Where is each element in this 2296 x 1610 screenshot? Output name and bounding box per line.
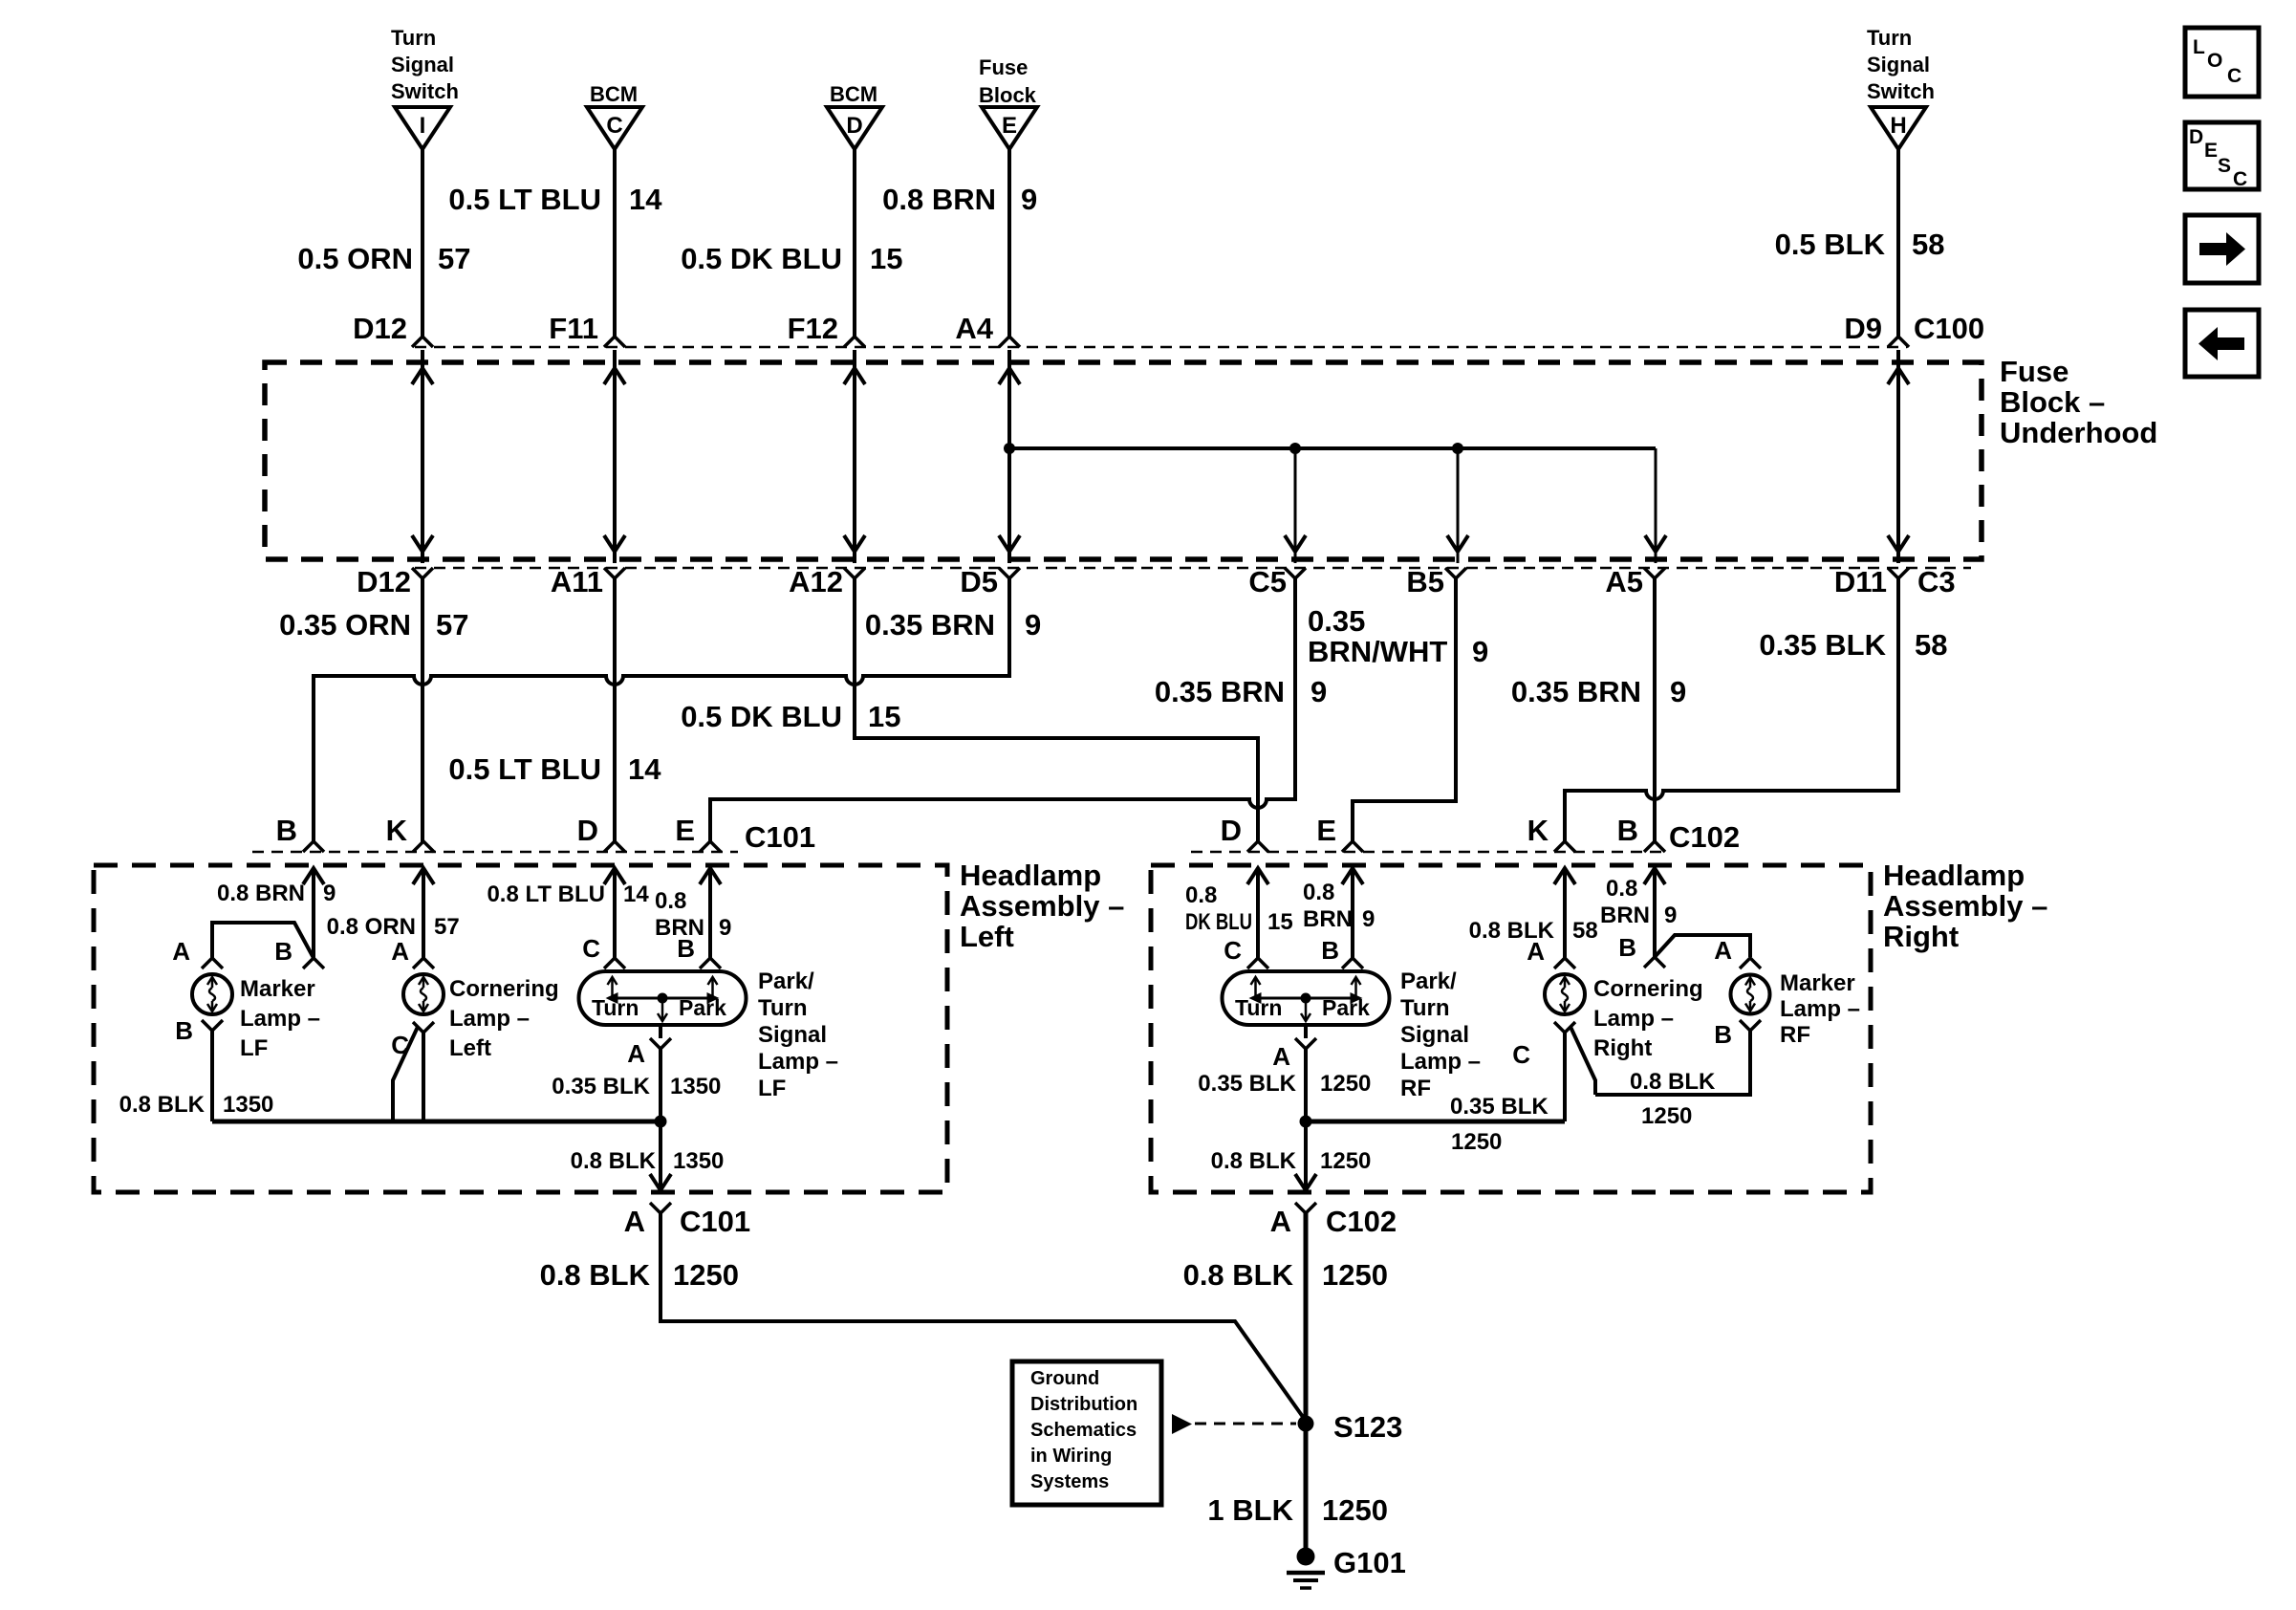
- svg-text:Ground: Ground: [1030, 1368, 1099, 1389]
- svg-text:Lamp –: Lamp –: [758, 1049, 838, 1075]
- svg-text:9: 9: [1664, 903, 1677, 928]
- note arrow: [1172, 1414, 1192, 1434]
- wire E-pin to park/turn RF B (0.8 BRN 9): [1351, 868, 1354, 958]
- svg-text:LF: LF: [758, 1076, 786, 1101]
- wire B-pin to marker RF (0.8 BRN 9): [1653, 868, 1657, 957]
- connector C100 dashed line: [415, 346, 1907, 349]
- connector C3 dashed line: [415, 567, 1971, 570]
- svg-text:B: B: [1714, 1020, 1732, 1049]
- label 0.8 BRN 9: [882, 183, 1037, 216]
- C102 terminal chevrons: [1247, 841, 1665, 852]
- svg-text:B: B: [274, 937, 292, 966]
- label 0.5 BLK 58: [1775, 228, 1945, 261]
- svg-text:C101: C101: [680, 1205, 750, 1238]
- svg-text:1350: 1350: [223, 1092, 273, 1118]
- svg-text:D: D: [2189, 126, 2203, 148]
- svg-text:1250: 1250: [1320, 1071, 1371, 1097]
- svg-text:15: 15: [870, 242, 902, 275]
- terminal chevron C cornering right: [1554, 1022, 1575, 1033]
- svg-text:Underhood: Underhood: [2000, 416, 2157, 449]
- terminal chevron B (BRN wire end): [303, 958, 324, 968]
- C3 terminal chevrons: [412, 568, 1909, 578]
- svg-text:H: H: [1890, 113, 1906, 139]
- label 0.8 BRN 9 (marker LF): [217, 881, 336, 906]
- marker lamp LF bulb: [192, 974, 232, 1014]
- svg-text:1250: 1250: [1320, 1148, 1371, 1174]
- svg-text:0.8 BLK: 0.8 BLK: [1183, 1258, 1294, 1292]
- wire C102-A to S123 to G101: [1304, 1213, 1309, 1550]
- svg-text:D12: D12: [357, 565, 411, 598]
- svg-text:Fuse: Fuse: [979, 55, 1028, 79]
- label 0.35 BRN 9 (D5): [865, 608, 1041, 642]
- svg-text:0.8 BLK: 0.8 BLK: [571, 1148, 657, 1174]
- park/turn signal lamp RF label: [1400, 968, 1481, 1101]
- label 0.35 BLK 1350: [552, 1074, 721, 1099]
- fuse block bottom arrows: [412, 535, 1909, 552]
- svg-text:0.35 BLK: 0.35 BLK: [1759, 628, 1886, 662]
- svg-text:C: C: [606, 113, 622, 139]
- terminal chevron A marker RF: [1740, 958, 1761, 968]
- svg-text:Marker: Marker: [1780, 970, 1855, 996]
- Headlamp Assembly - Left label: [960, 859, 1124, 953]
- svg-text:58: 58: [1572, 918, 1598, 944]
- svg-text:14: 14: [623, 881, 649, 907]
- svg-text:C5: C5: [1248, 565, 1287, 598]
- marker lamp RF label: [1780, 970, 1860, 1048]
- label 0.35 ORN 57: [279, 608, 468, 642]
- LOC box: [2185, 28, 2259, 97]
- label 0.8 ORN 57 (cornering left): [327, 914, 460, 940]
- wire cornering C diagonal to marker bus: [393, 1027, 418, 1121]
- svg-text:S: S: [2218, 155, 2231, 177]
- right ground bus 0.35 BLK 1250: [1306, 1120, 1565, 1124]
- wire park/turn LF A to ground bus: [659, 1049, 662, 1121]
- wire D12 to C101-K (ORN): [421, 578, 424, 843]
- wire park/turn LF A stub: [659, 1025, 662, 1038]
- wire D-pin to park/turn RF C (0.8 DK BLU 15): [1256, 868, 1260, 958]
- svg-text:Switch: Switch: [391, 79, 459, 103]
- wire B5 branch inside fuse block: [1457, 448, 1460, 563]
- svg-text:Assembly –: Assembly –: [1883, 889, 2047, 923]
- svg-text:B: B: [677, 934, 695, 963]
- svg-text:Signal: Signal: [1867, 53, 1930, 76]
- svg-text:A: A: [1527, 937, 1545, 966]
- svg-text:Signal: Signal: [1400, 1022, 1469, 1048]
- svg-text:C101: C101: [745, 820, 815, 854]
- wire E-pin to park/turn B (0.8 BRN 9): [708, 868, 712, 958]
- svg-text:C: C: [1512, 1040, 1530, 1069]
- cornering lamp right bulb: [1545, 974, 1585, 1014]
- svg-text:BCM: BCM: [590, 82, 638, 106]
- svg-text:C: C: [2233, 168, 2247, 190]
- ground G101 symbol: [1287, 1548, 1325, 1589]
- terminal chevron A park/turn RF: [1295, 1038, 1316, 1049]
- svg-text:0.8 LT BLU: 0.8 LT BLU: [487, 881, 605, 907]
- svg-text:0.35: 0.35: [1308, 604, 1365, 638]
- svg-text:LF: LF: [240, 1035, 268, 1061]
- svg-text:C102: C102: [1326, 1205, 1397, 1238]
- svg-text:1250: 1250: [1322, 1258, 1388, 1292]
- svg-text:Park: Park: [1322, 995, 1370, 1020]
- svg-text:E: E: [2204, 140, 2218, 162]
- wire cornering right C diagonal to marker RF bus: [1570, 1027, 1595, 1095]
- label 0.35 BLK 58 (D11): [1759, 628, 1947, 662]
- svg-text:0.5 ORN: 0.5 ORN: [297, 242, 413, 275]
- svg-text:Turn: Turn: [391, 26, 436, 50]
- label 0.5 DK BLU 15: [681, 242, 902, 275]
- junction dot left ground bus: [655, 1116, 667, 1128]
- wire H to C100 (0.5 BLK 58): [1896, 149, 1900, 338]
- label 0.5 ORN 57: [297, 242, 470, 275]
- svg-text:D: D: [1221, 814, 1242, 847]
- wire marker LF B to ground bus: [210, 1031, 214, 1121]
- svg-text:Block: Block: [979, 83, 1037, 107]
- svg-text:A: A: [1272, 1042, 1290, 1071]
- splice S123: [1298, 1416, 1314, 1432]
- svg-text:BRN: BRN: [1303, 906, 1353, 932]
- svg-text:Left: Left: [960, 920, 1014, 953]
- svg-text:B: B: [1321, 936, 1339, 965]
- svg-text:A4: A4: [955, 312, 993, 345]
- wire A12 to C102-D (DK BLU): [855, 578, 1258, 843]
- cornering lamp left: terminal chevron A: [413, 958, 434, 968]
- Ground Distribution Schematics note box: [1012, 1361, 1161, 1505]
- right box entry arrows: [1247, 868, 1665, 884]
- svg-text:0.35 BRN: 0.35 BRN: [1155, 675, 1285, 708]
- svg-text:A: A: [172, 937, 190, 966]
- svg-text:0.8 BLK: 0.8 BLK: [119, 1092, 206, 1118]
- park/turn signal lamp LF label: [758, 968, 838, 1101]
- svg-text:1 BLK: 1 BLK: [1207, 1493, 1293, 1527]
- svg-text:B5: B5: [1406, 565, 1444, 598]
- wire D inside fuse block: [853, 350, 856, 563]
- svg-text:RF: RF: [1780, 1022, 1810, 1048]
- svg-text:BCM: BCM: [830, 82, 877, 106]
- svg-text:Cornering: Cornering: [449, 976, 559, 1002]
- wire C101-A to S123: [661, 1213, 1308, 1424]
- wire I to C100 (0.5 ORN 57): [421, 149, 424, 338]
- svg-text:Park/: Park/: [758, 968, 814, 994]
- svg-text:E: E: [1316, 814, 1336, 847]
- C101 terminal chevrons: [303, 841, 721, 852]
- svg-text:Lamp –: Lamp –: [240, 1006, 320, 1032]
- svg-text:A11: A11: [551, 565, 603, 598]
- wire left bus to C101-A: [659, 1121, 662, 1190]
- svg-text:B: B: [1618, 933, 1636, 962]
- connector H (Turn Signal Switch) triangle: [1871, 107, 1926, 149]
- svg-text:57: 57: [434, 914, 460, 940]
- marker lamp RF bulb: [1731, 975, 1770, 1014]
- svg-text:0.35 ORN: 0.35 ORN: [279, 608, 411, 642]
- svg-text:1250: 1250: [673, 1258, 739, 1292]
- park/turn RF: terminal chevron C: [1247, 958, 1268, 968]
- svg-text:F11: F11: [549, 312, 598, 345]
- park/turn signal lamp LF oval: [579, 971, 747, 1025]
- terminal chevron B park/turn RF: [1342, 958, 1363, 968]
- wire C5 branch inside fuse block: [1294, 448, 1297, 563]
- label 0.8 BLK 1250 (bus down): [1211, 1148, 1372, 1174]
- svg-text:15: 15: [1267, 909, 1293, 935]
- C101-A terminal chevron: [650, 1203, 671, 1213]
- svg-text:1350: 1350: [670, 1074, 721, 1099]
- svg-text:C102: C102: [1669, 820, 1740, 854]
- svg-text:Distribution: Distribution: [1030, 1394, 1137, 1415]
- svg-text:0.35 BLK: 0.35 BLK: [1450, 1094, 1549, 1120]
- svg-text:A: A: [624, 1205, 645, 1238]
- wire K-pin to cornering right A (0.8 BLK 58): [1563, 868, 1567, 958]
- svg-text:0.5 DK BLU: 0.5 DK BLU: [681, 242, 842, 275]
- svg-text:9: 9: [1025, 608, 1041, 642]
- svg-text:9: 9: [323, 881, 336, 906]
- svg-text:D: D: [577, 814, 598, 847]
- wire D to C100 (0.5 DK BLU 15): [853, 149, 856, 338]
- svg-text:Signal: Signal: [758, 1022, 827, 1048]
- svg-text:Turn: Turn: [592, 995, 639, 1020]
- label 0.8 BRN 9 (park/turn RF B): [1303, 880, 1375, 932]
- svg-text:K: K: [386, 814, 408, 847]
- label 1 BLK 1250: [1207, 1493, 1388, 1527]
- svg-text:Park/: Park/: [1400, 968, 1457, 994]
- svg-text:9: 9: [1670, 675, 1686, 708]
- forward arrow box: [2185, 215, 2259, 283]
- cornering lamp right label: [1593, 976, 1703, 1061]
- svg-text:Assembly –: Assembly –: [960, 889, 1124, 923]
- DESC box: [2185, 122, 2259, 190]
- Ground Distribution Schematics note text: [1030, 1368, 1137, 1492]
- terminal chevron A marker LF: [202, 958, 223, 968]
- svg-text:O: O: [2207, 50, 2222, 72]
- wire C to C100 (0.5 LT BLU 14): [613, 149, 617, 338]
- svg-text:Lamp –: Lamp –: [449, 1006, 530, 1032]
- left ground bus: [212, 1120, 661, 1124]
- terminal chevron C cornering left: [413, 1022, 434, 1033]
- svg-text:Right: Right: [1593, 1035, 1652, 1061]
- park/turn signal lamp RF oval: [1223, 971, 1390, 1025]
- svg-text:0.8 BLK: 0.8 BLK: [1630, 1069, 1716, 1095]
- label 0.8 BLK 1250 (left C101 drop): [540, 1258, 739, 1292]
- marker RF branch wire from B-pin: [1655, 935, 1750, 957]
- label 0.5 DK BLU 15 (lower): [681, 700, 900, 733]
- svg-text:9: 9: [1310, 675, 1327, 708]
- wire I inside fuse block: [421, 350, 424, 563]
- svg-text:L: L: [2193, 36, 2205, 58]
- svg-text:D5: D5: [960, 565, 998, 598]
- label 0.5 LT BLU 14: [448, 183, 662, 216]
- svg-text:B: B: [175, 1016, 193, 1045]
- svg-text:9: 9: [1472, 635, 1488, 668]
- svg-text:Headlamp: Headlamp: [960, 859, 1101, 892]
- svg-text:1250: 1250: [1322, 1493, 1388, 1527]
- svg-text:Turn: Turn: [1400, 995, 1450, 1021]
- svg-text:I: I: [420, 113, 426, 139]
- label 0.35 BLK 1250: [1198, 1071, 1371, 1097]
- svg-text:0.35 BRN: 0.35 BRN: [1511, 675, 1641, 708]
- connector E (Fuse Block) triangle: [982, 107, 1037, 149]
- note dashed leader to S123: [1195, 1423, 1296, 1425]
- junction dot E bus: [1004, 443, 1015, 454]
- wire right bus to C102-A: [1304, 1121, 1308, 1190]
- svg-text:Schematics: Schematics: [1030, 1420, 1137, 1441]
- svg-text:9: 9: [719, 915, 731, 941]
- wire C inside fuse block: [613, 350, 617, 563]
- svg-text:C: C: [2227, 65, 2242, 87]
- svg-text:14: 14: [629, 183, 662, 216]
- marker lamp LF label: [240, 976, 320, 1061]
- svg-text:Turn: Turn: [758, 995, 808, 1021]
- wire K-pin to cornering lamp (0.8 ORN 57): [422, 868, 425, 958]
- label 0.8 DK BLU 15 (park/turn RF): [1185, 882, 1293, 935]
- wire marker RF B to cornering C (0.8 BLK 1250): [1595, 1031, 1750, 1095]
- junction dot B5 branch: [1452, 443, 1463, 454]
- svg-text:0.8: 0.8: [1303, 880, 1334, 905]
- connector I label: Turn Signal Switch: [391, 26, 459, 103]
- left box entry arrows: [303, 868, 721, 884]
- svg-text:E: E: [675, 814, 695, 847]
- label 0.35 BRN 9 (C5): [1155, 675, 1327, 708]
- svg-text:C3: C3: [1917, 565, 1956, 598]
- svg-text:A: A: [1714, 936, 1732, 965]
- label 0.8 BLK 1350 (marker): [119, 1092, 274, 1118]
- svg-text:B: B: [276, 814, 297, 847]
- junction dot right ground bus: [1300, 1116, 1312, 1128]
- cornering lamp left label: [449, 976, 559, 1061]
- wire E inside fuse block: [1007, 350, 1011, 563]
- connector C (BCM) triangle: [587, 107, 642, 149]
- label 0.8 BRN 9 (park/turn LF B): [655, 888, 731, 941]
- svg-text:57: 57: [436, 608, 468, 642]
- svg-text:D12: D12: [353, 312, 407, 345]
- svg-text:RF: RF: [1400, 1076, 1431, 1101]
- label 0.5 LT BLU 14 (lower): [448, 752, 661, 786]
- svg-text:C: C: [582, 934, 600, 963]
- marker lamp LF branch wire A: [212, 923, 314, 958]
- svg-text:S123: S123: [1333, 1410, 1402, 1444]
- right box exit arrow: [1295, 1174, 1316, 1190]
- svg-text:A: A: [1270, 1205, 1291, 1238]
- wire A5 to C102-B (BRN): [1653, 578, 1657, 843]
- svg-text:G101: G101: [1333, 1546, 1406, 1579]
- terminal chevron A park/turn LF: [650, 1038, 671, 1049]
- wire D-pin to park/turn C (0.8 LT BLU 14): [613, 868, 617, 958]
- cornering lamp right: terminal chevron A: [1554, 958, 1575, 968]
- svg-text:in Wiring: in Wiring: [1030, 1446, 1112, 1467]
- svg-text:0.35 BRN: 0.35 BRN: [865, 608, 995, 642]
- svg-text:K: K: [1527, 814, 1549, 847]
- wire B-pin to marker lamp (0.8 BRN 9): [312, 868, 315, 958]
- svg-text:C100: C100: [1914, 312, 1984, 345]
- connector C102 dashed line: [1191, 851, 1663, 854]
- svg-text:0.8 BRN: 0.8 BRN: [882, 183, 996, 216]
- svg-text:B: B: [1617, 814, 1638, 847]
- svg-text:0.8 ORN: 0.8 ORN: [327, 914, 416, 940]
- connector D (BCM) triangle: [827, 107, 882, 149]
- svg-text:0.5 BLK: 0.5 BLK: [1775, 228, 1886, 261]
- svg-text:58: 58: [1915, 628, 1947, 662]
- terminal chevron B marker LF bottom: [202, 1020, 223, 1031]
- Fuse Block - Underhood dashed box: [265, 362, 1982, 559]
- svg-text:Fuse: Fuse: [2000, 355, 2069, 388]
- svg-text:1250: 1250: [1451, 1129, 1502, 1155]
- svg-text:Cornering: Cornering: [1593, 976, 1703, 1002]
- svg-text:Systems: Systems: [1030, 1471, 1109, 1492]
- wire E to C100 (0.8 BRN 9): [1007, 149, 1011, 338]
- Fuse Block - Underhood label: [2000, 355, 2157, 449]
- cornering lamp left bulb: [403, 974, 444, 1014]
- svg-text:A12: A12: [789, 565, 843, 598]
- wire park/turn RF A to ground bus: [1304, 1049, 1308, 1121]
- svg-text:1250: 1250: [1641, 1103, 1692, 1129]
- svg-text:BRN/WHT: BRN/WHT: [1308, 635, 1447, 668]
- fuse block internal bus from E: [1009, 446, 1656, 450]
- svg-text:0.5 DK BLU: 0.5 DK BLU: [681, 700, 842, 733]
- svg-text:15: 15: [868, 700, 900, 733]
- svg-text:Left: Left: [449, 1035, 491, 1061]
- svg-text:0.8: 0.8: [1606, 876, 1637, 902]
- svg-text:Marker: Marker: [240, 976, 315, 1002]
- svg-text:Lamp –: Lamp –: [1780, 996, 1860, 1022]
- svg-text:A: A: [627, 1039, 645, 1068]
- wire C5 to C101-E (BRN) with hop: [710, 578, 1295, 843]
- wire cornering right C down to ground bus: [1563, 1033, 1567, 1121]
- svg-text:Headlamp: Headlamp: [1883, 859, 2025, 892]
- label 0.8 BLK 58 (cornering right): [1469, 918, 1598, 944]
- label 0.8 BRN 9 (marker RF): [1600, 876, 1677, 928]
- svg-text:DK BLU: DK BLU: [1185, 909, 1252, 935]
- wire H inside fuse block: [1896, 350, 1900, 563]
- svg-text:Lamp –: Lamp –: [1593, 1006, 1674, 1032]
- svg-text:D: D: [846, 113, 862, 139]
- terminal chevron B wire end (marker RF branch): [1644, 957, 1665, 968]
- Headlamp Assembly - Right dashed box: [1151, 865, 1871, 1192]
- svg-text:C: C: [1224, 936, 1242, 965]
- svg-text:BRN: BRN: [1600, 903, 1650, 928]
- label 0.8 BLK 1250 (right C102 drop): [1183, 1258, 1388, 1292]
- svg-text:0.8 BRN: 0.8 BRN: [217, 881, 305, 906]
- label 0.35 BRN/WHT 9 (B5): [1308, 604, 1488, 668]
- svg-text:57: 57: [438, 242, 470, 275]
- Headlamp Assembly - Left dashed box: [94, 865, 947, 1192]
- svg-text:0.8 BLK: 0.8 BLK: [540, 1258, 651, 1292]
- svg-text:9: 9: [1362, 906, 1375, 932]
- svg-text:0.8: 0.8: [1185, 882, 1217, 908]
- svg-text:Turn: Turn: [1235, 995, 1282, 1020]
- svg-text:Signal: Signal: [391, 53, 454, 76]
- wire park/turn RF A stub: [1304, 1025, 1308, 1038]
- svg-text:E: E: [1002, 113, 1017, 139]
- svg-text:0.8 BLK: 0.8 BLK: [1211, 1148, 1297, 1174]
- label 0.8 LT BLU 14 (park/turn LF): [487, 881, 649, 907]
- svg-text:A5: A5: [1605, 565, 1643, 598]
- label 0.35 BRN 9 (A5): [1511, 675, 1686, 708]
- svg-text:58: 58: [1912, 228, 1944, 261]
- svg-text:F12: F12: [788, 312, 838, 345]
- terminal chevron B marker RF: [1740, 1020, 1761, 1031]
- terminal chevron B park/turn LF: [700, 958, 721, 968]
- connector E label: Fuse Block: [979, 55, 1037, 107]
- svg-text:D11: D11: [1834, 565, 1887, 598]
- junction dot C5 branch: [1289, 443, 1301, 454]
- C102-A terminal chevron: [1295, 1203, 1316, 1213]
- svg-text:Right: Right: [1883, 920, 1959, 953]
- Headlamp Assembly - Right label: [1883, 859, 2047, 953]
- left box exit arrow: [650, 1174, 671, 1190]
- connector I (Turn Signal Switch) triangle: [395, 107, 450, 149]
- svg-text:Turn: Turn: [1867, 26, 1912, 50]
- svg-text:Block –: Block –: [2000, 385, 2105, 419]
- svg-text:9: 9: [1021, 183, 1037, 216]
- svg-text:D9: D9: [1844, 312, 1882, 345]
- C100 terminal chevrons: [412, 337, 1909, 347]
